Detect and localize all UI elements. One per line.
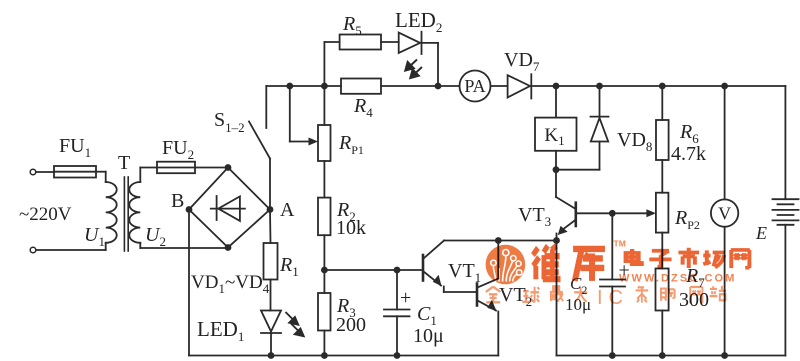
svg-text:200: 200 <box>336 314 366 336</box>
svg-text:4.7k: 4.7k <box>671 143 706 165</box>
svg-text:K1: K1 <box>544 125 564 148</box>
svg-text:R1: R1 <box>279 254 299 279</box>
svg-text:LED2: LED2 <box>395 8 442 35</box>
svg-text:RP1: RP1 <box>338 132 364 157</box>
svg-text:A: A <box>280 199 295 221</box>
svg-text:WWW.DZSC.COM: WWW.DZSC.COM <box>619 273 736 285</box>
svg-text:U2: U2 <box>145 224 166 249</box>
svg-text:+: + <box>400 287 411 309</box>
svg-text:IC: IC <box>597 287 629 309</box>
svg-text:E: E <box>755 223 767 243</box>
svg-text:S1–2: S1–2 <box>214 109 245 135</box>
svg-text:T: T <box>118 152 130 174</box>
svg-text:VD1~VD4: VD1~VD4 <box>191 272 270 296</box>
svg-text:V: V <box>718 204 731 224</box>
svg-text:FU1: FU1 <box>59 135 91 160</box>
svg-text:PA: PA <box>464 76 485 96</box>
svg-text:U1: U1 <box>84 224 105 249</box>
svg-text:VD7: VD7 <box>504 49 540 74</box>
svg-text:B: B <box>171 190 184 212</box>
svg-text:R4: R4 <box>353 95 373 120</box>
svg-text:RP2: RP2 <box>674 207 700 232</box>
svg-text:LED1: LED1 <box>197 317 244 344</box>
svg-text:FU2: FU2 <box>162 137 194 162</box>
svg-text:VT1: VT1 <box>448 260 481 285</box>
svg-text:R5: R5 <box>342 13 362 38</box>
svg-text:VD8: VD8 <box>617 129 652 154</box>
svg-text:VT3: VT3 <box>518 204 551 229</box>
svg-text:10μ: 10μ <box>413 325 444 347</box>
svg-text:TM: TM <box>614 239 626 249</box>
svg-text:10k: 10k <box>336 217 366 239</box>
svg-text:~220V: ~220V <box>19 204 72 225</box>
